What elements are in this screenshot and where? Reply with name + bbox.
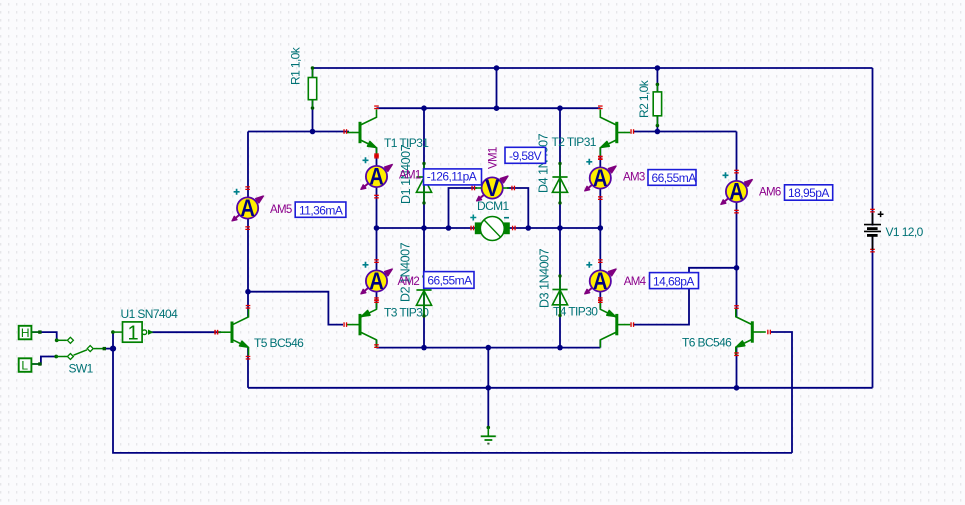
diode D2 1N4007 <box>416 275 431 318</box>
wire switch H lead <box>31 332 56 340</box>
wire top center vertical <box>496 68 498 108</box>
svg-text:AM5: AM5 <box>270 204 292 216</box>
transistor T4 TIP30 pnp mirrored <box>600 302 630 348</box>
svg-text:V1 12,0: V1 12,0 <box>886 225 924 239</box>
pin marks T1 <box>343 129 347 134</box>
wire top rail <box>313 67 873 69</box>
wire AM6 T6 column <box>736 132 738 318</box>
wire R2 vertical <box>656 68 658 132</box>
svg-text:AM4: AM4 <box>624 276 647 288</box>
transistor T5 BC546 npn <box>219 309 249 355</box>
wire bottom rail <box>113 332 792 453</box>
value box AM2 66,55mA <box>424 272 474 289</box>
svg-text:VM1: VM1 <box>488 147 500 169</box>
resistor R2 <box>653 83 661 128</box>
svg-text:T6 BC546: T6 BC546 <box>682 336 732 350</box>
wire D1 D2 column <box>423 108 425 347</box>
ammeter AM6 <box>721 170 752 214</box>
diode D1 1N4007 <box>416 162 431 205</box>
svg-text:66,55mA: 66,55mA <box>652 171 697 185</box>
svg-text:-126,11pA: -126,11pA <box>427 169 477 183</box>
ammeter AM5 <box>232 186 263 230</box>
transistor T2 TIP31 npn mirrored <box>600 110 630 156</box>
svg-text:14,68pA: 14,68pA <box>653 274 694 288</box>
svg-text:AM6: AM6 <box>759 187 781 199</box>
ammeter AM2 <box>361 259 392 303</box>
junction node D4 top <box>557 105 563 111</box>
wire lower bridge rail <box>377 347 601 349</box>
diode D4 1N4007 <box>552 162 567 205</box>
wire upper bridge rail <box>377 107 601 109</box>
switch SW1 <box>19 326 106 373</box>
wire ground drop <box>487 348 489 428</box>
pin marks T6 <box>767 330 771 335</box>
junction node R2 bottom <box>655 129 661 135</box>
value box AM6 18,95pA <box>785 185 833 200</box>
wire D4 D3 column <box>559 108 561 347</box>
wire right bridge column T2-AM3-AM4-T4 <box>599 148 601 309</box>
svg-text:D3 1N4007: D3 1N4007 <box>537 248 551 308</box>
value box VM1 -9,58V <box>505 147 546 163</box>
junction node R1 bottom <box>310 129 316 135</box>
ammeter AM3 <box>585 156 616 200</box>
pin marks T5 <box>214 330 218 335</box>
wire T6 base route <box>770 332 792 453</box>
wire right side drop to battery and down <box>872 68 874 388</box>
wire R1 vertical <box>312 68 314 132</box>
wire T5 collector/emitter stubs <box>247 292 249 317</box>
svg-text:L: L <box>21 358 28 372</box>
wire motor rail <box>377 227 601 229</box>
svg-text:1: 1 <box>128 323 139 345</box>
wire U1 output to T5 base <box>150 331 221 333</box>
ammeter AM4 <box>585 259 616 303</box>
svg-text:R2 1,0k: R2 1,0k <box>637 79 651 118</box>
svg-text:66,55mA: 66,55mA <box>427 274 472 288</box>
junction node D2 bottom <box>421 345 427 351</box>
wire left base rail <box>248 131 349 133</box>
wire right base rail T2 to R2 to AM6 <box>633 131 737 133</box>
svg-text:R1 1,0k: R1 1,0k <box>289 46 303 85</box>
wire T3 collector stub <box>376 340 378 348</box>
svg-text:SW1: SW1 <box>69 362 94 376</box>
junction node AM1 bottom on motor rail <box>374 225 380 231</box>
pin marks T3 <box>343 322 347 327</box>
wire T3 base route <box>248 292 343 325</box>
junction node D1 top <box>421 105 427 111</box>
value box AM3 66,55mA <box>648 170 696 186</box>
wire AM5 branch vertical <box>247 132 249 292</box>
wire switch L lead <box>31 357 57 365</box>
svg-text:H: H <box>21 326 30 340</box>
battery V1 <box>864 209 884 253</box>
junction node ground top <box>486 345 492 351</box>
wire switch pole to node <box>104 348 113 350</box>
junction node switch pole <box>110 346 116 352</box>
svg-text:V: V <box>485 175 500 202</box>
junction node D1-D2 on motor rail <box>421 225 427 231</box>
svg-text:T5 BC546: T5 BC546 <box>254 336 304 350</box>
svg-text:U1 SN7404: U1 SN7404 <box>121 307 179 321</box>
junction node VM1 right on motor rail <box>526 225 532 231</box>
svg-text:AM2: AM2 <box>398 276 420 288</box>
svg-text:D2 1N4007: D2 1N4007 <box>399 242 413 302</box>
svg-text:AM1: AM1 <box>399 170 421 182</box>
resistor R1 <box>308 66 316 110</box>
junction node T6 emitter on emitter rail <box>734 385 740 391</box>
transistor T3 TIP30 pnp <box>347 302 377 348</box>
svg-text:T3 TIP30: T3 TIP30 <box>384 306 429 320</box>
value box AM1 -126,11pA <box>424 169 482 185</box>
pin marks U1-T5 <box>214 330 218 335</box>
transistor T1 TIP31 npn <box>347 110 377 156</box>
junction node R2 top <box>655 65 661 71</box>
svg-text:T2 TIP31: T2 TIP31 <box>552 135 597 149</box>
junction node AM3 bottom on motor rail <box>598 225 604 231</box>
ground symbol <box>481 426 496 444</box>
pin marks T4 <box>630 322 634 327</box>
svg-text:AM3: AM3 <box>623 171 645 183</box>
junction node ground on emitter rail <box>486 385 492 391</box>
wire voltmeter left branch <box>449 188 478 228</box>
value box AM4 14,68pA <box>650 273 699 289</box>
value box AM5 11,36mA <box>295 202 346 217</box>
ammeter AM1 <box>361 155 392 199</box>
dc motor DCM1 <box>470 215 515 241</box>
junction node center on upper rail <box>494 105 500 111</box>
pin marks T2 <box>630 129 634 134</box>
junction node D4-D3 on motor rail <box>557 225 563 231</box>
junction node top center <box>494 65 500 71</box>
voltmeter VM1 <box>471 175 515 202</box>
wire emitter rail <box>248 387 873 389</box>
wire T4 base route <box>633 268 737 325</box>
svg-text:18,95pA: 18,95pA <box>788 186 829 200</box>
wire left bridge column T1-AM1-AM2-T3 <box>376 148 378 309</box>
svg-text:11,36mA: 11,36mA <box>299 203 343 217</box>
inverter U1 SN7404 <box>111 322 153 345</box>
junction node D3 bottom <box>557 345 563 351</box>
wire T6 emitter stub <box>736 348 738 388</box>
wire voltmeter right branch <box>507 188 528 228</box>
transistor T6 BC546 npn mirrored <box>736 309 766 355</box>
junction node AM6-T4-T6 <box>734 265 740 271</box>
junction node VM1 left on motor rail <box>446 225 452 231</box>
wire T4 collector stub <box>599 340 601 348</box>
junction node AM5-T3-T5 <box>245 289 251 295</box>
diode D3 1N4007 <box>552 274 567 317</box>
svg-text:-9,58V: -9,58V <box>509 149 542 163</box>
